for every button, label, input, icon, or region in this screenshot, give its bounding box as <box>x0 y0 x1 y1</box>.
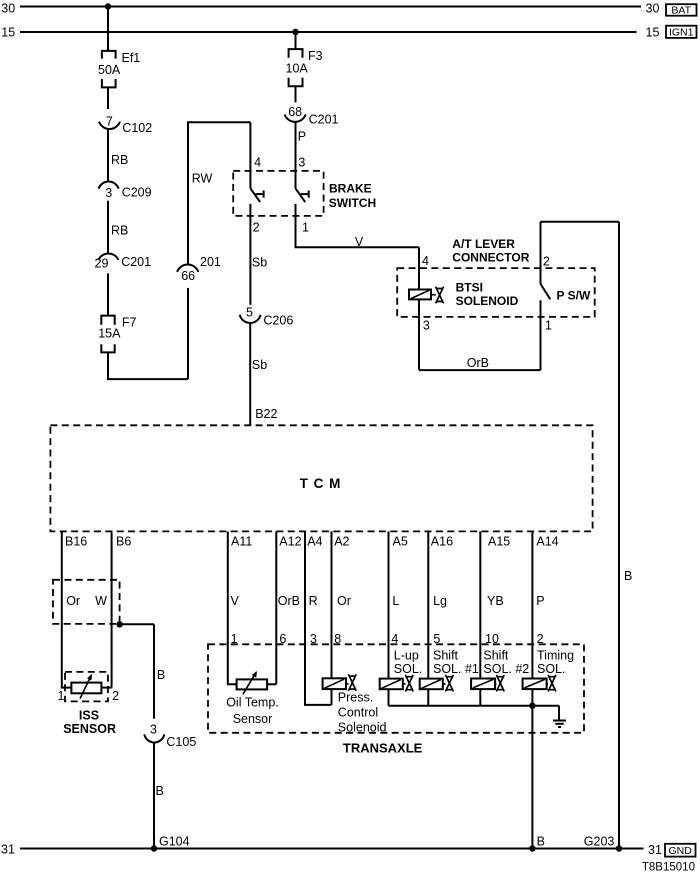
svg-text:L: L <box>392 594 399 608</box>
svg-text:C201: C201 <box>121 255 151 269</box>
svg-text:50A: 50A <box>98 63 121 77</box>
svg-text:Or: Or <box>337 594 351 608</box>
svg-text:2: 2 <box>537 632 544 646</box>
svg-text:G203: G203 <box>584 834 615 848</box>
svg-text:RW: RW <box>192 171 213 185</box>
svg-text:SOL.: SOL. <box>394 662 423 676</box>
svg-text:ISS: ISS <box>79 708 99 722</box>
svg-text:L-up: L-up <box>394 648 419 662</box>
svg-text:31: 31 <box>648 843 662 857</box>
svg-text:OrB: OrB <box>278 594 300 608</box>
svg-text:66: 66 <box>181 269 195 283</box>
svg-text:4: 4 <box>422 254 429 268</box>
svg-text:C102: C102 <box>122 121 152 135</box>
svg-text:C201: C201 <box>309 113 339 127</box>
svg-text:10A: 10A <box>286 62 309 76</box>
svg-text:IGN1: IGN1 <box>669 27 694 39</box>
svg-text:A12: A12 <box>279 534 301 548</box>
svg-text:C209: C209 <box>122 186 152 200</box>
svg-text:10: 10 <box>485 632 499 646</box>
svg-text:3: 3 <box>298 156 305 170</box>
svg-text:Press.: Press. <box>338 691 373 705</box>
svg-text:6: 6 <box>279 632 286 646</box>
svg-text:Shift: Shift <box>483 648 509 662</box>
svg-text:SENSOR: SENSOR <box>63 722 116 736</box>
svg-text:RB: RB <box>111 224 128 238</box>
svg-text:V: V <box>231 594 240 608</box>
svg-text:A15: A15 <box>488 534 510 548</box>
svg-text:P S/W: P S/W <box>557 289 591 303</box>
svg-text:GND: GND <box>669 845 693 857</box>
svg-text:Sensor: Sensor <box>233 712 273 726</box>
svg-text:1: 1 <box>58 689 65 703</box>
svg-text:2: 2 <box>543 254 550 268</box>
svg-text:B16: B16 <box>65 534 87 548</box>
svg-text:V: V <box>355 235 364 249</box>
svg-text:15A: 15A <box>98 327 121 341</box>
svg-text:7: 7 <box>106 114 113 128</box>
svg-text:68: 68 <box>288 105 302 119</box>
svg-text:8: 8 <box>334 632 341 646</box>
svg-text:B: B <box>537 834 545 848</box>
svg-text:Ef1: Ef1 <box>122 51 141 65</box>
svg-text:A16: A16 <box>431 534 453 548</box>
svg-text:15: 15 <box>646 26 660 40</box>
svg-text:A/T LEVER: A/T LEVER <box>452 237 515 251</box>
svg-text:TRANSAXLE: TRANSAXLE <box>343 740 423 755</box>
svg-text:W: W <box>95 594 107 608</box>
svg-text:A4: A4 <box>307 534 322 548</box>
svg-text:B6: B6 <box>116 534 131 548</box>
svg-text:C206: C206 <box>263 313 293 327</box>
svg-text:B22: B22 <box>255 407 277 421</box>
svg-text:2: 2 <box>253 221 260 235</box>
svg-text:Solenoid: Solenoid <box>338 721 387 735</box>
svg-text:29: 29 <box>95 257 109 271</box>
svg-text:P: P <box>536 594 544 608</box>
svg-text:T C M: T C M <box>300 476 342 491</box>
svg-text:30: 30 <box>1 2 15 16</box>
svg-text:1: 1 <box>302 221 309 235</box>
svg-text:T8B15010: T8B15010 <box>642 862 695 874</box>
svg-text:5: 5 <box>246 305 253 319</box>
svg-text:3: 3 <box>150 722 157 736</box>
svg-text:3: 3 <box>310 632 317 646</box>
svg-text:SOL.: SOL. <box>537 662 566 676</box>
svg-text:RB: RB <box>111 153 128 167</box>
svg-text:5: 5 <box>433 632 440 646</box>
svg-text:A2: A2 <box>334 534 349 548</box>
svg-text:P: P <box>298 130 306 144</box>
svg-text:A14: A14 <box>536 534 558 548</box>
svg-text:SOLENOID: SOLENOID <box>456 294 519 308</box>
svg-text:SWITCH: SWITCH <box>329 196 376 210</box>
svg-text:201: 201 <box>200 255 221 269</box>
svg-text:A11: A11 <box>231 534 252 548</box>
svg-text:BRAKE: BRAKE <box>329 181 372 195</box>
svg-text:A5: A5 <box>393 534 408 548</box>
svg-text:YB: YB <box>487 594 504 608</box>
svg-text:F3: F3 <box>308 49 323 63</box>
svg-text:B: B <box>157 668 165 682</box>
svg-text:3: 3 <box>423 318 430 332</box>
svg-text:Timing: Timing <box>537 648 574 662</box>
svg-text:Sb: Sb <box>252 256 267 270</box>
svg-text:2: 2 <box>112 689 119 703</box>
svg-text:CONNECTOR: CONNECTOR <box>452 250 529 264</box>
svg-text:30: 30 <box>646 2 660 16</box>
svg-text:B: B <box>624 569 632 583</box>
svg-text:C105: C105 <box>166 735 196 749</box>
svg-text:Oil Temp.: Oil Temp. <box>226 696 279 710</box>
svg-text:G104: G104 <box>159 835 190 849</box>
svg-text:SOL. #1: SOL. #1 <box>433 662 479 676</box>
svg-text:Sb: Sb <box>252 358 267 372</box>
svg-text:4: 4 <box>254 156 261 170</box>
svg-text:Shift: Shift <box>433 648 459 662</box>
svg-text:R: R <box>309 594 318 608</box>
svg-text:B: B <box>156 784 164 798</box>
svg-text:F7: F7 <box>122 316 137 330</box>
svg-text:Or: Or <box>66 594 80 608</box>
svg-text:1: 1 <box>231 632 238 646</box>
svg-text:BTSI: BTSI <box>456 280 483 294</box>
svg-text:SOL. #2: SOL. #2 <box>483 662 529 676</box>
svg-text:31: 31 <box>1 842 15 856</box>
svg-text:BAT: BAT <box>671 4 691 16</box>
svg-text:Lg: Lg <box>433 594 447 608</box>
svg-text:OrB: OrB <box>467 356 489 370</box>
svg-text:1: 1 <box>545 318 552 332</box>
svg-text:Control: Control <box>338 706 378 720</box>
svg-text:4: 4 <box>391 632 398 646</box>
svg-text:15: 15 <box>1 26 15 40</box>
svg-text:3: 3 <box>105 186 112 200</box>
